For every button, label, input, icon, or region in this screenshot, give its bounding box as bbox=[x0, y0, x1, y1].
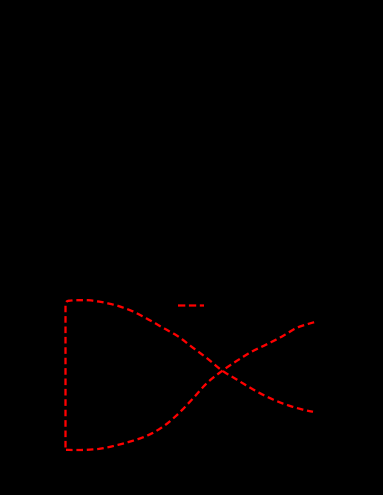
ascending population curve bbox=[66, 322, 315, 450]
legend dashed-line sample bbox=[178, 304, 204, 306]
descending population curve (left vertical rise + flat top + sigmoid fall) bbox=[66, 300, 314, 447]
